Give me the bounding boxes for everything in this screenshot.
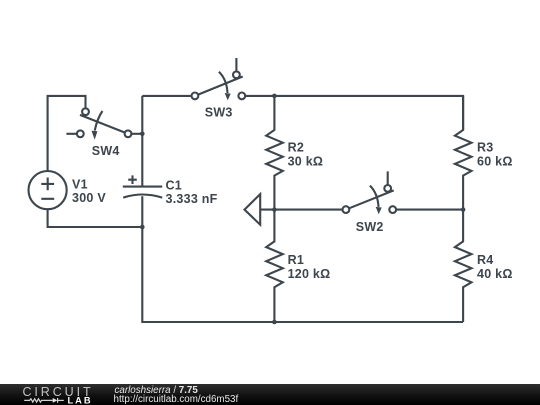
svg-text:R2: R2 [288,140,304,154]
svg-text:60 kΩ: 60 kΩ [477,154,513,168]
svg-text:C1: C1 [166,178,182,192]
svg-text:R4: R4 [477,253,493,267]
svg-text:30 kΩ: 30 kΩ [288,154,324,168]
svg-text:R1: R1 [288,253,304,267]
svg-text:300 V: 300 V [72,191,106,205]
svg-text:SW4: SW4 [92,144,120,158]
svg-text:120 kΩ: 120 kΩ [288,267,331,281]
svg-text:SW2: SW2 [356,220,384,234]
svg-text:V1: V1 [72,178,88,192]
svg-text:http://circuitlab.com/cd6m53f: http://circuitlab.com/cd6m53f [114,394,239,405]
svg-text:3.333 nF: 3.333 nF [166,192,218,206]
svg-text:R3: R3 [477,140,493,154]
svg-text:LAB: LAB [68,396,93,405]
svg-text:40 kΩ: 40 kΩ [477,267,513,281]
svg-text:SW3: SW3 [205,106,233,120]
